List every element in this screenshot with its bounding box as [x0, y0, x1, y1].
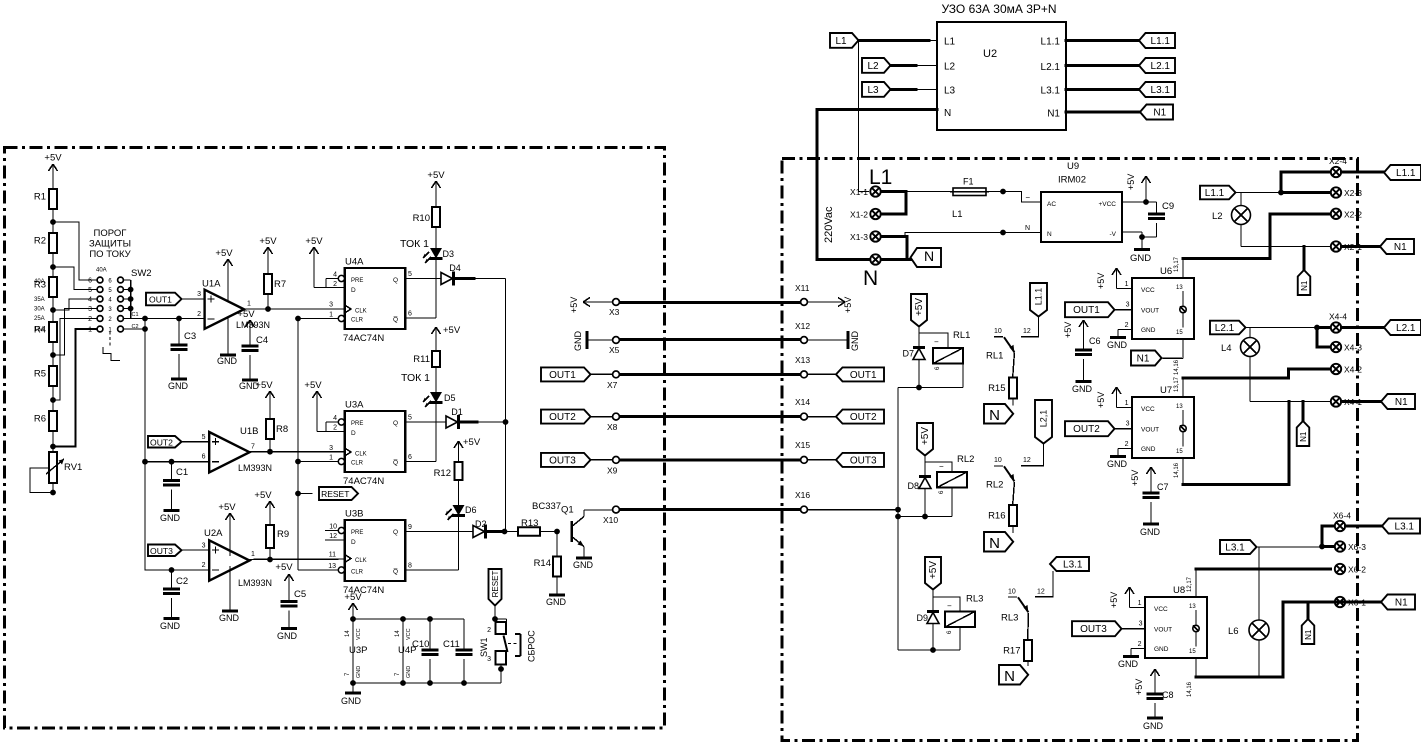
- node R5/R6 tap: [50, 397, 56, 403]
- node X16 tap: [895, 507, 901, 513]
- resistor R8: [255, 380, 288, 452]
- svg-text:L3.1: L3.1: [1063, 560, 1083, 571]
- svg-text:N1: N1: [1304, 629, 1313, 640]
- wire X6-4 to L3.1 flag: [1346, 525, 1383, 528]
- ground at X12: [808, 331, 861, 352]
- svg-text:X8: X8: [607, 422, 618, 432]
- svg-text:L2.1: L2.1: [1041, 62, 1061, 73]
- svg-text:VOUT: VOUT: [1141, 308, 1159, 315]
- svg-text:+5V: +5V: [344, 592, 362, 603]
- relay coil RL1: [933, 330, 970, 370]
- svg-text:+5V: +5V: [427, 170, 445, 181]
- resistor R15: [988, 353, 1017, 406]
- node RESET flag: [295, 491, 301, 497]
- net flag OUT3 to U2A: [148, 543, 209, 570]
- switch SW2 common lever: [103, 332, 120, 361]
- wire X1-1 to fuse: [906, 191, 953, 193]
- solid-state relay U6: [1132, 266, 1194, 339]
- net flag N at R17: [999, 665, 1028, 685]
- node C2 top: [169, 567, 175, 573]
- wire U1B output to U3A CLK: [250, 444, 345, 452]
- node SW2 common b: [128, 296, 134, 302]
- net flag N at R16: [984, 532, 1013, 552]
- capacitor C9: [1142, 201, 1174, 237]
- svg-text:X6-2: X6-2: [1348, 565, 1366, 575]
- wire RV1 wiper loop: [30, 468, 53, 493]
- resistor R4: [34, 322, 57, 342]
- wire tap3: [53, 299, 97, 310]
- net flag N1 right group1: [1380, 239, 1414, 254]
- wire U9 -V to ground: [1122, 232, 1142, 250]
- power +5V U2A pin8: [218, 502, 236, 556]
- wire U6 output bottom: [1174, 339, 1183, 375]
- svg-text:10: 10: [329, 524, 337, 531]
- capacitor C6: [1063, 320, 1101, 394]
- svg-text:ЗАЩИТЫ: ЗАЩИТЫ: [89, 239, 131, 250]
- svg-text:X1-2: X1-2: [850, 210, 868, 220]
- terminal X2-2: [1331, 209, 1362, 220]
- ground at X5: [573, 331, 613, 352]
- wire L1 to U2: [859, 39, 938, 42]
- terminal X6-1: [1335, 597, 1366, 608]
- svg-text:L1.1: L1.1: [1151, 36, 1171, 47]
- svg-text:4: 4: [88, 297, 92, 304]
- svg-text:C2: C2: [176, 576, 188, 587]
- power pins U4P: [395, 619, 416, 683]
- wire U7 to X4-2: [1183, 369, 1331, 378]
- svg-text:Q: Q: [393, 529, 398, 536]
- svg-text:CLR: CLR: [351, 318, 364, 324]
- svg-text:GND: GND: [1107, 340, 1128, 350]
- svg-text:3: 3: [329, 445, 333, 452]
- svg-text:L1: L1: [835, 36, 847, 47]
- net flag N1 top: [1140, 105, 1173, 120]
- net flag N1 small group3: [1302, 619, 1315, 644]
- svg-text:OUT1: OUT1: [549, 370, 576, 381]
- svg-text:X4-2: X4-2: [1344, 365, 1362, 375]
- svg-text:Q̅: Q̅: [393, 316, 398, 324]
- net flag OUT3 at U8: [1072, 621, 1145, 637]
- svg-text:N: N: [1025, 225, 1030, 232]
- svg-text:GND: GND: [1072, 384, 1093, 394]
- svg-text:RL3: RL3: [1001, 613, 1018, 624]
- svg-text:L1.1: L1.1: [1041, 37, 1061, 48]
- svg-text:5: 5: [88, 287, 92, 294]
- wire U6 output top: [1174, 256, 1183, 278]
- svg-text:R11: R11: [413, 354, 430, 365]
- svg-text:4: 4: [333, 415, 337, 422]
- capacitor C2: [160, 570, 188, 631]
- relay coil RL2: [937, 454, 974, 494]
- wire tap2: [53, 267, 97, 290]
- connector X7: [607, 371, 619, 390]
- svg-text:L1.1: L1.1: [1205, 188, 1225, 199]
- svg-text:12: 12: [1023, 457, 1031, 464]
- svg-text:X4-4: X4-4: [1329, 312, 1347, 322]
- svg-text:U8: U8: [1173, 585, 1185, 596]
- svg-text:GND: GND: [277, 631, 298, 641]
- net flag L3.1 at RL3: [1035, 557, 1089, 597]
- flip-flop U4A: [343, 257, 405, 345]
- svg-text:3: 3: [1126, 302, 1130, 309]
- svg-text:CLR: CLR: [351, 570, 364, 576]
- svg-text:D2: D2: [475, 519, 487, 529]
- svg-text:+5V: +5V: [44, 153, 62, 164]
- svg-text:X9: X9: [607, 466, 618, 476]
- svg-text:R7: R7: [274, 279, 286, 290]
- svg-text:+5V: +5V: [304, 380, 322, 391]
- diode D9: [916, 597, 939, 650]
- wire tap5: [53, 319, 97, 401]
- svg-text:SW1: SW1: [479, 637, 489, 657]
- resistor R1: [34, 189, 57, 209]
- svg-text:N1: N1: [1394, 242, 1407, 253]
- svg-text:15: 15: [1176, 330, 1183, 336]
- lamp L4: [1221, 328, 1260, 402]
- node R3/R4 tap: [50, 307, 56, 313]
- svg-text:X4-3: X4-3: [1344, 343, 1362, 353]
- svg-text:+5V: +5V: [1126, 174, 1136, 190]
- svg-text:1: 1: [329, 312, 333, 319]
- svg-text:+5V: +5V: [305, 236, 323, 247]
- svg-text:OUT3: OUT3: [150, 546, 173, 556]
- power +5V U8: [1109, 587, 1145, 608]
- wire N from U2 down to X1-4: [817, 110, 937, 260]
- ground U1A pin4: [217, 317, 238, 366]
- svg-text:U3A: U3A: [345, 400, 364, 411]
- svg-text:N1: N1: [1137, 354, 1150, 365]
- node D2 junction: [502, 529, 508, 535]
- lamp L2: [1212, 193, 1251, 247]
- terminal X4-2: [1331, 364, 1362, 375]
- svg-text:RL2: RL2: [986, 480, 1003, 491]
- svg-text:C8: C8: [1162, 690, 1174, 700]
- svg-text:R1: R1: [34, 192, 46, 203]
- power +5V from U9: [1122, 174, 1157, 202]
- power +5V U7: [1096, 387, 1132, 408]
- svg-text:1: 1: [247, 301, 251, 308]
- svg-text:35A: 35A: [34, 297, 45, 303]
- svg-text:RV1: RV1: [64, 462, 82, 473]
- svg-text:X14: X14: [795, 397, 810, 407]
- svg-text:GND: GND: [1143, 721, 1164, 731]
- wire U3B PRE stub: [325, 524, 338, 531]
- net flag OUT3 at X9: [541, 453, 613, 467]
- svg-text:13,17: 13,17: [1174, 256, 1180, 272]
- net flag L2.1 vertical: [1021, 400, 1052, 466]
- svg-text:2: 2: [197, 311, 201, 318]
- svg-text:L3.1: L3.1: [1151, 85, 1171, 96]
- node SW1 top: [492, 616, 498, 622]
- solid-state relay U8: [1145, 585, 1207, 658]
- svg-text:2: 2: [1125, 322, 1129, 329]
- svg-text:U3P: U3P: [349, 645, 367, 656]
- svg-text:GND: GND: [406, 666, 412, 678]
- terminal X1-1: [850, 186, 881, 197]
- wire U2 L1.1 out: [1066, 39, 1139, 42]
- svg-text:X11: X11: [795, 283, 810, 293]
- svg-text:L3.1: L3.1: [1041, 86, 1061, 97]
- wire RL2 coil bottom: [898, 488, 952, 517]
- power flag +5V RL1: [911, 294, 927, 327]
- svg-text:1: 1: [1138, 600, 1142, 607]
- svg-text:VCC: VCC: [1154, 606, 1168, 613]
- svg-text:15: 15: [1189, 649, 1196, 655]
- node gnd rail a: [350, 680, 356, 686]
- net flag L1.1 top: [1139, 33, 1175, 48]
- svg-text:U3B: U3B: [345, 509, 363, 520]
- svg-text:−: −: [939, 462, 944, 471]
- svg-text:D1: D1: [451, 407, 463, 417]
- svg-text:D: D: [351, 430, 356, 437]
- svg-text:U1A: U1A: [202, 279, 221, 290]
- node RL1 coil return: [916, 385, 922, 391]
- wire X1-3 to U9 N: [881, 233, 1041, 237]
- wire N1 stub group2: [1302, 402, 1305, 422]
- wire X4-1 to N1 flag: [1342, 400, 1382, 403]
- svg-text:+5V: +5V: [259, 236, 277, 247]
- svg-text:+5V: +5V: [1063, 322, 1073, 338]
- connector X8: [607, 413, 619, 432]
- svg-text:U2A: U2A: [204, 528, 223, 539]
- svg-text:N: N: [989, 407, 1000, 424]
- svg-text:9: 9: [408, 524, 412, 531]
- svg-text:N1: N1: [1299, 431, 1308, 442]
- svg-text:N: N: [924, 248, 934, 264]
- svg-text:LM393N: LM393N: [238, 463, 272, 473]
- svg-text:Q: Q: [393, 277, 398, 284]
- svg-text:L3.1: L3.1: [1225, 543, 1245, 554]
- svg-text:U1B: U1B: [240, 426, 258, 437]
- power +5V R11: [432, 325, 461, 340]
- node U2A output: [267, 557, 273, 563]
- node C1 top: [169, 459, 175, 465]
- svg-text:OUT2: OUT2: [850, 412, 877, 423]
- connector X15: [795, 440, 810, 463]
- net flag L2.1 top: [1139, 58, 1175, 73]
- wire L3.1 to bracket: [1257, 546, 1323, 548]
- terminal X6-3: [1335, 541, 1366, 552]
- svg-text:ТОК 1: ТОК 1: [400, 238, 429, 250]
- svg-text:N1: N1: [1300, 280, 1309, 291]
- svg-text:L2: L2: [944, 62, 956, 73]
- wire threshold vertical bus: [144, 319, 146, 571]
- node rail U4P: [400, 616, 406, 622]
- net flag OUT1 at X13: [808, 367, 885, 381]
- svg-text:74AC74N: 74AC74N: [343, 333, 384, 344]
- svg-text:12: 12: [1023, 328, 1031, 335]
- svg-text:RL3: RL3: [966, 594, 983, 605]
- text TOK1 b: [401, 372, 430, 384]
- wire X1-3 bridge X1-4: [817, 237, 911, 260]
- svg-text:X3: X3: [609, 307, 620, 317]
- net flag N1 right group3: [1381, 595, 1415, 610]
- node U9 N wire: [1000, 230, 1006, 236]
- svg-text:C3: C3: [184, 331, 196, 342]
- net flag RESET at SW1: [489, 569, 502, 619]
- wire R4-R5: [52, 342, 54, 366]
- resistor R12: [434, 449, 463, 505]
- op-amp U1B: [209, 426, 272, 473]
- svg-text:OUT3: OUT3: [549, 455, 576, 466]
- wire U8 to X6-2: [1196, 568, 1331, 571]
- svg-text:+5V: +5V: [443, 325, 461, 336]
- svg-text:13: 13: [1189, 604, 1196, 610]
- svg-text:RESET: RESET: [321, 489, 349, 499]
- svg-text:+5V: +5V: [275, 562, 293, 573]
- wire U3A Qbar to LED D5: [405, 403, 436, 462]
- wire reset vertical bus: [297, 319, 299, 571]
- node RL3 coil return: [930, 647, 936, 653]
- svg-text:OUT1: OUT1: [149, 295, 172, 305]
- text current threshold note: [89, 228, 132, 260]
- wire U8 output bottom: [1187, 658, 1196, 697]
- net flag L3.1 top: [1139, 82, 1175, 97]
- resistor R7: [259, 236, 286, 309]
- node U9 +V: [1143, 199, 1149, 205]
- wire X1-1 bridge X1-2: [881, 192, 906, 215]
- wire threshold net to U1A inverting input: [131, 318, 205, 320]
- svg-text:5: 5: [408, 271, 412, 278]
- wire U2 L3.1 out: [1066, 88, 1139, 91]
- svg-text:GND: GND: [217, 356, 238, 366]
- net flag L1.1 right: [1384, 165, 1421, 180]
- svg-text:BC337: BC337: [532, 501, 561, 512]
- node threshold/C3 branch: [142, 316, 148, 322]
- terminal X2-4: [1329, 156, 1347, 177]
- svg-text:6: 6: [408, 311, 412, 318]
- svg-text:220Vac: 220Vac: [823, 206, 835, 243]
- wire U4A Qbar to LED D3: [405, 259, 436, 318]
- wire U3B Qbar to LED D6: [405, 516, 458, 571]
- wire U3A CLR to reset bus: [298, 445, 338, 462]
- flip-flop U3A: [343, 400, 405, 488]
- wire link X5-X12: [619, 338, 800, 341]
- svg-text:Q̅: Q̅: [393, 459, 398, 467]
- svg-text:2: 2: [1138, 641, 1142, 648]
- svg-text:1: 1: [1125, 400, 1129, 407]
- resistor R14: [534, 532, 561, 577]
- svg-text:GND: GND: [1154, 646, 1169, 653]
- svg-text:L4: L4: [1221, 343, 1232, 354]
- svg-text:2: 2: [333, 425, 337, 432]
- svg-text:D8: D8: [907, 481, 919, 491]
- svg-text:+5V: +5V: [215, 248, 233, 259]
- svg-text:+5V: +5V: [928, 561, 939, 579]
- svg-text:PRE: PRE: [351, 530, 363, 536]
- power +5V logic rail: [344, 592, 362, 619]
- svg-text:R14: R14: [534, 558, 551, 569]
- svg-text:D3: D3: [443, 249, 455, 259]
- power flag +5V RL3: [925, 557, 941, 590]
- wire U3B D stub: [325, 533, 345, 540]
- node R1/R2 tap: [50, 219, 56, 225]
- wire link X10-X16: [619, 508, 800, 511]
- wire U4A CLR to reset bus: [298, 302, 338, 319]
- op-amp U2A: [204, 528, 272, 588]
- connector X13: [795, 355, 810, 378]
- svg-text:GND: GND: [1140, 527, 1161, 537]
- svg-text:15A: 15A: [34, 327, 45, 333]
- svg-text:+5V: +5V: [237, 309, 255, 320]
- svg-text:12: 12: [329, 533, 337, 540]
- svg-text:C6: C6: [1089, 336, 1101, 346]
- svg-text:C1: C1: [132, 312, 139, 318]
- svg-text:L2.1: L2.1: [1151, 61, 1171, 72]
- svg-text:7: 7: [251, 444, 255, 451]
- wire U3A Q to D1: [405, 415, 446, 423]
- svg-text:N1: N1: [1395, 397, 1408, 408]
- svg-text:OUT1: OUT1: [1073, 305, 1100, 316]
- svg-text:U7: U7: [1160, 385, 1172, 396]
- resistor R10: [413, 194, 440, 248]
- svg-text:RESET: RESET: [491, 571, 500, 598]
- svg-text:R13: R13: [521, 518, 538, 529]
- node Q1 base junction: [554, 529, 560, 535]
- wire tap6: [53, 329, 97, 447]
- flip-flop U3B: [343, 509, 405, 597]
- wire RL1 coil bottom: [919, 364, 963, 388]
- svg-text:12: 12: [1037, 589, 1045, 596]
- terminal X4-3: [1331, 342, 1362, 353]
- svg-text:3: 3: [329, 302, 333, 309]
- wire R6-RV1: [52, 431, 54, 452]
- net flag OUT1 to U1A: [146, 291, 205, 318]
- svg-text:13: 13: [328, 563, 336, 570]
- power +5V at X3: [569, 297, 613, 313]
- wire lamp L4 to N: [1250, 401, 1331, 403]
- diode D1: [446, 407, 506, 429]
- svg-text:1: 1: [329, 455, 333, 462]
- svg-text:GND: GND: [219, 613, 240, 623]
- node SW2 common c: [128, 306, 134, 312]
- svg-text:OUT3: OUT3: [1080, 624, 1107, 635]
- resistor R9: [254, 490, 289, 560]
- switch SW2: [34, 268, 152, 334]
- svg-text:GND: GND: [356, 666, 362, 678]
- svg-text:X1-1: X1-1: [850, 187, 868, 197]
- bubble U3B PRE: [338, 527, 344, 533]
- wire link X9-X15: [619, 458, 800, 461]
- diode D8: [907, 462, 931, 517]
- ground U2A pin4: [219, 566, 240, 623]
- resistor R3: [34, 277, 57, 297]
- svg-text:2: 2: [487, 627, 491, 634]
- node RL2 coil return: [922, 514, 928, 520]
- svg-text:13: 13: [1176, 285, 1183, 291]
- svg-text:N: N: [1004, 668, 1015, 685]
- svg-text:RL1: RL1: [953, 330, 970, 341]
- net flag N mains: [911, 248, 942, 267]
- svg-text:GND: GND: [573, 560, 594, 570]
- svg-text:VOUT: VOUT: [1154, 627, 1172, 634]
- power +5V supply R1 top: [44, 153, 62, 190]
- node U3A CLR/reset: [295, 459, 301, 465]
- svg-text:+5V: +5V: [1096, 273, 1106, 289]
- svg-text:ПО ТОКУ: ПО ТОКУ: [89, 249, 131, 260]
- wire tap4: [53, 309, 97, 356]
- svg-text:2: 2: [1125, 441, 1129, 448]
- svg-text:C10: C10: [412, 639, 429, 650]
- svg-text:6: 6: [88, 278, 92, 285]
- svg-text:N: N: [944, 108, 951, 119]
- wire L1 down to X1-1: [859, 41, 870, 192]
- wire R3-R4: [52, 297, 54, 322]
- LED D3: [423, 248, 454, 263]
- wire link X7-X13: [619, 373, 800, 376]
- svg-text:1: 1: [88, 327, 92, 334]
- wire link X8-X14: [619, 415, 800, 418]
